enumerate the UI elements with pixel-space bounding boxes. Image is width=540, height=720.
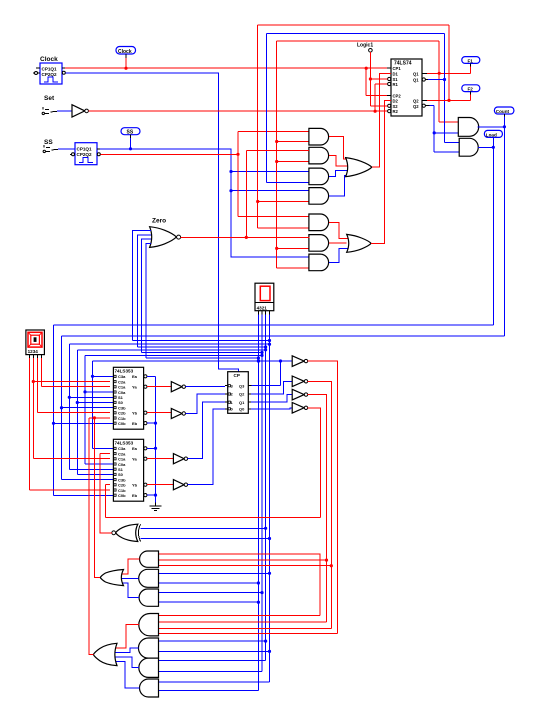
svg-text:Q1: Q1 (413, 71, 419, 76)
svg-text:Ya: Ya (132, 457, 137, 462)
AND gate 3 (309, 168, 329, 185)
inverter IV1 (mux1 Ya) (147, 386, 171, 388)
register U4 CP (225, 372, 251, 414)
AND gate 2 (309, 147, 329, 164)
XNOR gate (comparator) (112, 524, 141, 541)
node label oval Clock (116, 47, 136, 70)
wire OR-m out net (red) up to mux1.C1b (89, 418, 110, 578)
AND gate d (4-input, mirrored) (139, 614, 159, 636)
svg-text:C0b: C0b (118, 421, 126, 426)
OR gate 1 (346, 158, 372, 177)
wire display-1234 line w1 (red) to mux2 C1b (29, 358, 110, 490)
buffer T4 (292, 403, 304, 414)
Q bus line L1 (blue) (69, 344, 269, 469)
svg-text:Eb: Eb (132, 493, 138, 498)
wire AND-d out to OR-n.in1 (red) (113, 625, 139, 648)
wire Q2 net (red): Q2 to F2, AND4.in2, AND5.in2 (258, 25, 471, 228)
wire IV1 out to CP.D3 (blue) (186, 386, 225, 388)
svg-text:R2: R2 (393, 109, 399, 114)
wire T2 out net (red) down: AND-a.in3, AND-d.in3 (159, 381, 332, 628)
wire AND6 out to OR2.in2 (red) (329, 242, 347, 244)
wire display-4321 line w3 (blue, Q1) (140, 314, 265, 660)
svg-text:Count: Count (496, 109, 510, 114)
wire display-1234 line w2 (red) to mux1 C2a and mux2 C1a (33, 358, 110, 459)
Q bus line L2 (blue) (77, 350, 265, 475)
wire IV4 out to CP.D0 (blue) (188, 409, 225, 485)
wire OR2 out to U1.D2 (red) (371, 101, 391, 244)
svg-text:Yb: Yb (132, 483, 138, 488)
buffer T2 (292, 376, 304, 387)
AND gate a (3-input, mirrored) (140, 551, 159, 567)
svg-text:CP1Q1: CP1Q1 (77, 147, 93, 152)
wire AND-a.in1 to AND-d.in1 (red) (159, 554, 320, 616)
buffer T3 (292, 389, 304, 400)
wire IV2 out to CP.D2 (blue) (186, 394, 225, 414)
wire AND-a out to OR-m.in1 (red) (119, 559, 140, 574)
wire display-4321 line w1 (blue, Q3) (159, 314, 259, 690)
inverter IV4 (mux2 Yb) (147, 484, 173, 486)
OR gate 2 (347, 234, 371, 252)
AND gate B (load enable) (459, 138, 478, 156)
hex display 1234 (26, 330, 45, 358)
AND gate 7 (309, 254, 329, 271)
wire Set net (red) to R2 and R1 of U1 (88, 84, 387, 111)
wire display-4321 line w4 (blue, Q0) (140, 314, 269, 682)
AND gate 6 (309, 235, 329, 252)
wire AND-g out to OR-n.in4 (blue) (113, 661, 140, 688)
node label oval Count (494, 107, 514, 117)
svg-text:1234: 1234 (28, 349, 39, 354)
node label oval F2 (462, 85, 480, 101)
svg-text:R1: R1 (393, 82, 399, 87)
svg-text:CP1: CP1 (393, 66, 402, 71)
wire AND2 out to OR1.in2 (red) (329, 156, 348, 166)
wire display-4321 line w2 (blue, Q2) (159, 314, 263, 671)
wire AND3 out to OR1.in3 (blue) (329, 171, 349, 177)
svg-text:Zero: Zero (152, 218, 166, 225)
OR gate n (mirrored, bottom group) (93, 643, 117, 665)
svg-text:C0b: C0b (118, 493, 126, 498)
ground (149, 503, 161, 511)
svg-text:SS: SS (44, 139, 53, 146)
svg-text:CP2Q2: CP2Q2 (77, 152, 93, 157)
AND gate g (mirrored) (140, 679, 159, 697)
svg-text:Q2: Q2 (413, 104, 419, 109)
D flip-flop U1 74LS74 (387, 59, 429, 116)
svg-text:Ya: Ya (132, 385, 137, 390)
wire Clock Q1 net (red) to CP1 and CP2 of U1 (65, 68, 391, 95)
AND gate 5 (309, 214, 329, 231)
AND gate b (mirrored) (139, 569, 159, 587)
svg-text:Q1: Q1 (239, 400, 245, 405)
wire SS switch to SS clock box (blue) (58, 148, 75, 150)
wire OR-n out net (red) up to mux1.C1b row (89, 418, 93, 655)
wire XNOR out net (red) up to mux2.C2a (100, 454, 112, 533)
NOR gate Zero (4-input) (150, 218, 181, 248)
svg-text:74LS353: 74LS353 (115, 369, 134, 374)
AND gate e (mirrored) (138, 638, 158, 658)
clock generator U_CLK (33, 56, 65, 84)
svg-text:Load: Load (486, 132, 497, 137)
wire AND-e out to OR-n.in2 (blue) (112, 648, 139, 652)
power terminal Logic1 (357, 43, 388, 106)
wire T3 out net (red) down: AND-a.in2, AND-d.in2 (159, 395, 327, 623)
wire IV3 out to CP.D1 (blue) (188, 402, 225, 459)
Q bus line L3 (blue) (85, 355, 262, 464)
svg-text:F2: F2 (468, 87, 474, 92)
AND gate 4 (309, 188, 329, 205)
wire SS Q2 net (red) to AND1 AND5 inputs (100, 132, 309, 217)
wire CP.Q1 to buffer T3 (blue) (251, 395, 292, 403)
OR gate m (mirrored, middle group) (100, 570, 123, 586)
hex display 4321 (255, 283, 274, 314)
wire Q2bar net (blue): Q2bar to AND-A.in2, AND-B.in2 (429, 106, 459, 152)
input switch Set (42, 95, 57, 115)
wire OR1 out to U1.D1 (red) (372, 73, 391, 167)
wire Zero inputs (blue) down to Q bus (133, 230, 270, 358)
wire display-1234 line w4 (red) to mux1 C1a (41, 358, 110, 387)
svg-text:Clock: Clock (118, 49, 132, 55)
wire enable net to ground (blue) (147, 376, 156, 502)
wire T4 out net (red) down to long line and mux2 C2b (105, 408, 320, 518)
svg-text:D1: D1 (393, 71, 399, 76)
wire AND4 out to OR1.in4 (blue) (329, 175, 348, 196)
svg-text:4321: 4321 (257, 305, 268, 310)
wire CP.Q0 to buffer T4 (blue) (251, 408, 292, 409)
svg-text:Q2: Q2 (239, 392, 245, 397)
svg-text:Clock: Clock (40, 56, 58, 63)
wire Count net (blue): AND-A out, down right side, across to left bundle (62, 117, 505, 480)
AND gate 1 (309, 128, 329, 145)
wire AND5 out to OR2.in1 (red) (329, 222, 350, 238)
wire AND-c out to OR-m.in3 (blue) (119, 583, 139, 598)
input switch SS (43, 139, 58, 153)
AND gate c (mirrored) (139, 589, 158, 606)
wire AND1 out to OR1.in1 (red) (329, 137, 346, 159)
wire SS Q1 net (blue) to AND3 AND4 AND7 inputs (100, 149, 310, 257)
wire display-1234 line w3 (red) to mux1 C2b (37, 358, 110, 413)
wire Q1 net (red): Q1 to F1, AND-A.in1, AND1.in2, AND2.in2, AND6.in2, AND7.in2 (277, 41, 471, 268)
node label oval Load (484, 130, 502, 137)
svg-text:Logic1: Logic1 (357, 43, 373, 49)
inverter IV3 (mux2 Ya) (147, 458, 173, 460)
svg-text:Eb: Eb (132, 421, 138, 426)
wire Zero out net (red) to AND2.in1 and AND6.in1 (181, 151, 310, 238)
svg-text:CP2: CP2 (393, 93, 402, 98)
wire AND-b out to OR-m.in2 (blue) (118, 577, 139, 579)
AND gate f (mirrored) (139, 658, 159, 677)
wire AND-f out to OR-n.in3 (blue) (112, 657, 139, 668)
svg-text:Yb: Yb (132, 411, 138, 416)
inverter INV1 (Set) (72, 105, 88, 117)
svg-text:S2: S2 (393, 104, 399, 109)
svg-text:F1: F1 (468, 58, 474, 63)
buffer T1 (292, 356, 304, 367)
wire Load net (blue): AND-B out, down right side, across to left bundle (54, 137, 494, 495)
clock generator U_SS (70, 143, 100, 165)
multiplexer U2 74LS353 (upper) (113, 367, 147, 429)
svg-text:Q0: Q0 (239, 407, 245, 412)
svg-text:CP2Q2: CP2Q2 (42, 72, 58, 77)
AND gate A (count enable) (458, 118, 478, 137)
node label oval F1 (462, 57, 480, 74)
wire Q1bar net (blue): Q1bar to AND-B.in1 and AND3.in2 (267, 33, 460, 182)
wire T1 out net (red) down to AND-d.in4 (159, 361, 338, 634)
svg-text:74LS353: 74LS353 (115, 441, 134, 446)
svg-text:CP1Q1: CP1Q1 (42, 67, 58, 72)
wire Clock Q2 net (blue) down to CP register clock (65, 73, 238, 372)
svg-text:Q1: Q1 (413, 78, 419, 83)
inverter IV2 (mux1 Yb) (147, 412, 171, 414)
svg-text:CP: CP (234, 373, 240, 378)
svg-text:Ea: Ea (132, 446, 138, 451)
wire Set switch to inverter (blue) (57, 110, 72, 112)
svg-text:Ea: Ea (132, 374, 138, 379)
wire CP.Q2 to buffer T2 (blue) (251, 381, 292, 394)
Q bus line L4 (blue, Q3 row to T1 input) (93, 361, 293, 449)
node label oval SS (121, 128, 140, 151)
svg-text:Q3: Q3 (239, 383, 245, 388)
svg-text:Set: Set (44, 95, 55, 102)
multiplexer U3 74LS353 (lower) (113, 439, 147, 501)
wire AND7 out to OR2.in3 (blue) (329, 249, 350, 263)
